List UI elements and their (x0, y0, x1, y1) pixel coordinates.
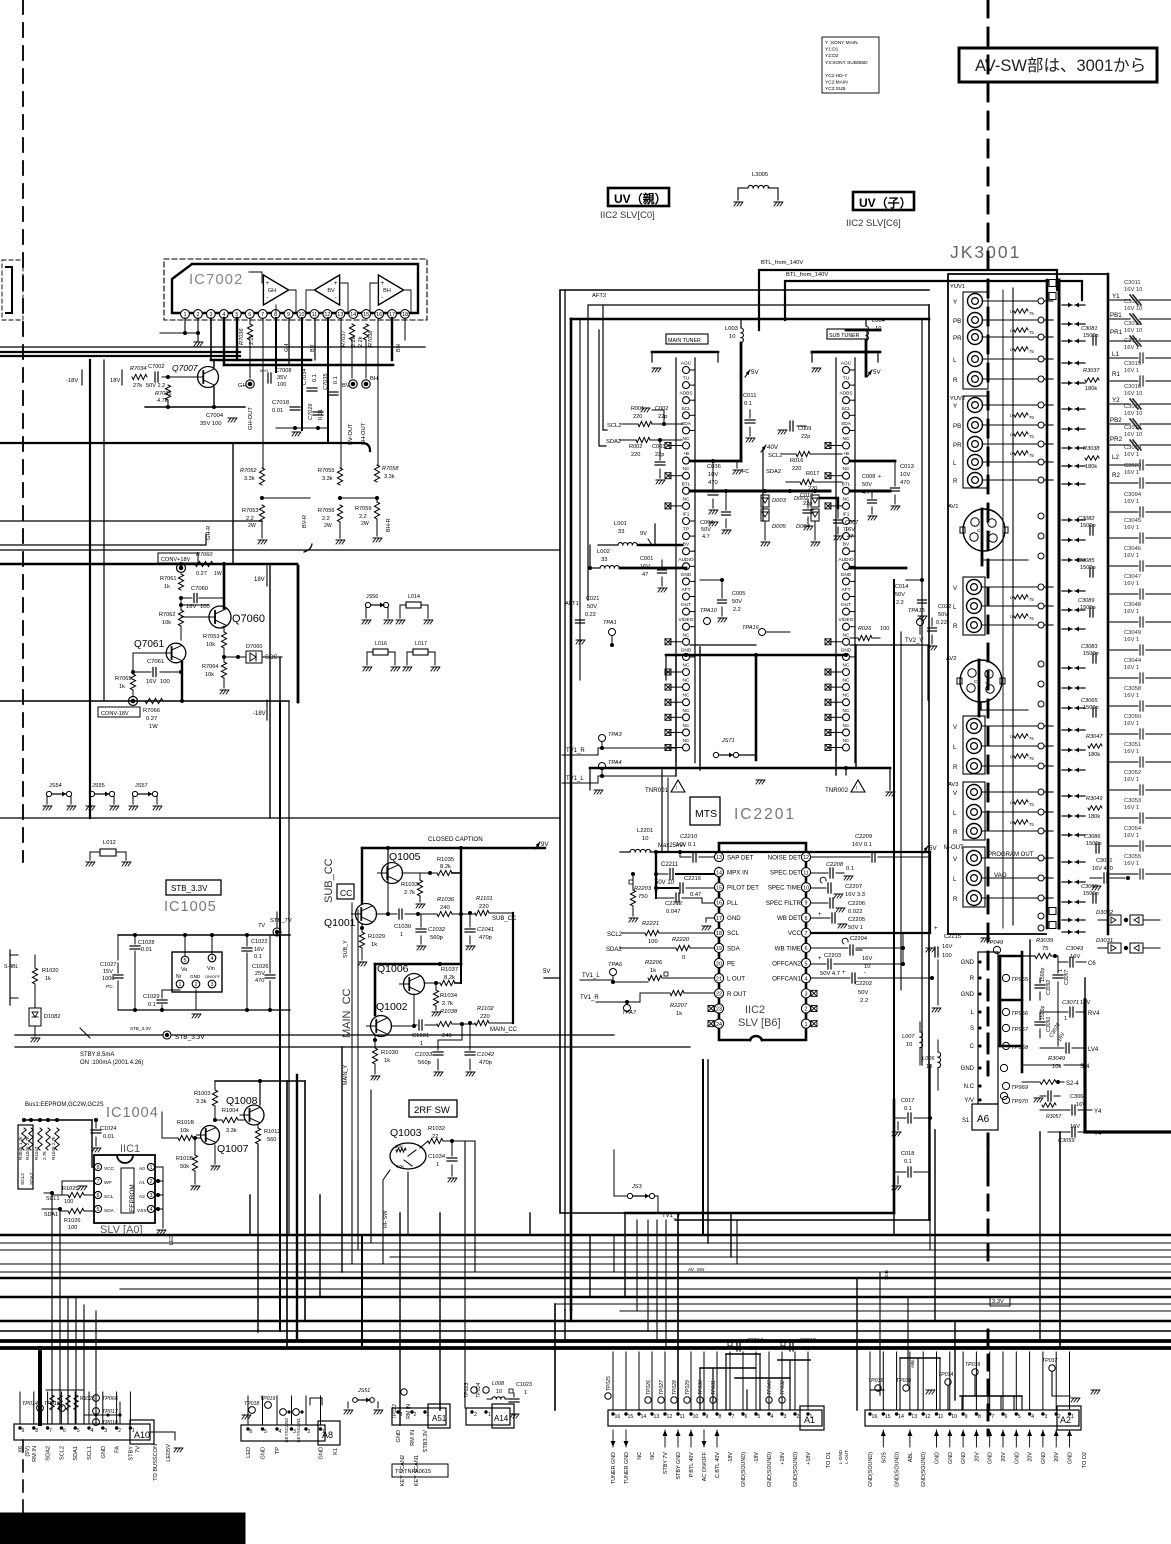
svg-text:2.2: 2.2 (860, 998, 868, 1004)
svg-text:Vin: Vin (207, 966, 215, 972)
svg-text:C3049: C3049 (1124, 630, 1141, 636)
svg-text:1: 1 (805, 1022, 808, 1028)
svg-text:R7059: R7059 (355, 506, 371, 512)
net MAIN_Y rot (343, 1065, 349, 1085)
svg-text:3.3V: 3.3V (992, 1299, 1004, 1305)
capacitor C1032 560p (416, 914, 446, 950)
svg-text:C021: C021 (586, 596, 599, 602)
svg-text:OUT: OUT (681, 602, 691, 608)
svg-text:R3047: R3047 (1086, 734, 1103, 740)
A51 body (392, 1404, 450, 1428)
svg-text:C3046: C3046 (1124, 546, 1141, 552)
capacitor C3092 1500p (1035, 967, 1052, 1000)
capacitor C3070 16V 1 (1040, 1022, 1099, 1053)
svg-text:0.1: 0.1 (846, 866, 854, 872)
svg-text:TPA15: TPA15 (908, 608, 926, 614)
capacitor C2204 16V 10 (811, 933, 905, 970)
svg-text:75: 75 (1029, 756, 1034, 761)
testpoint TPA6 (608, 962, 623, 984)
svg-text:6: 6 (805, 946, 808, 952)
testpoint conv18 (177, 564, 186, 573)
svg-text:C1030: C1030 (394, 924, 411, 930)
svg-text:YC1:HD-Y: YC1:HD-Y (825, 73, 848, 79)
capacitor C2215 16V 100 (926, 934, 961, 1012)
svg-text:5: 5 (97, 1207, 100, 1213)
svg-text:C008: C008 (862, 474, 875, 480)
net BH rot (396, 344, 402, 352)
svg-text:C7060: C7060 (191, 586, 208, 592)
capacitor C2203 50V 4.7 (811, 948, 905, 977)
A10 pins (18, 1426, 141, 1462)
svg-text:TP026: TP026 (646, 1380, 652, 1395)
svg-text:R017: R017 (806, 471, 819, 477)
svg-text:NC: NC (843, 436, 850, 442)
svg-text:Q7007: Q7007 (172, 363, 198, 373)
AV1 S-video DIN (948, 504, 1008, 565)
AV2 S-video DIN (946, 656, 1005, 716)
svg-text:NC: NC (843, 693, 850, 699)
svg-text:NC: NC (843, 632, 850, 638)
svg-text:5: 5 (184, 958, 187, 964)
svg-text:16V 10: 16V 10 (1124, 411, 1142, 417)
svg-text:4: 4 (150, 1207, 153, 1213)
svg-text:75: 75 (1042, 946, 1048, 952)
svg-text:D: D (1010, 414, 1013, 418)
bus y1047 (15, 1046, 690, 1048)
diode networks (1096, 910, 1160, 953)
svg-text:8.2k: 8.2k (440, 864, 451, 870)
YUV2 jacks (950, 396, 988, 488)
svg-text:16V 10: 16V 10 (1124, 432, 1142, 438)
svg-text:8: 8 (719, 1414, 722, 1420)
resistor R1048 (51, 1128, 59, 1160)
svg-text:IF1: IF1 (843, 512, 850, 518)
resistor R7061 1k (160, 574, 184, 590)
svg-text:(5V): (5V) (25, 1446, 31, 1457)
svg-text:D: D (1010, 329, 1013, 333)
svg-text:L-OUT: L-OUT (844, 1450, 849, 1464)
svg-text:+B: +B (683, 451, 689, 457)
svg-text:3: 3 (211, 982, 214, 988)
vert cc out (513, 913, 560, 1023)
svg-text:1: 1 (179, 982, 182, 988)
A1 to D1 (826, 1449, 849, 1468)
bus y521 (0, 520, 262, 522)
svg-text:R7065: R7065 (115, 676, 131, 682)
net GH-R rot (206, 526, 212, 540)
resistor R7056 2.2 (318, 505, 345, 544)
svg-text:13: 13 (337, 312, 343, 318)
svg-text:7V: 7V (135, 1446, 141, 1453)
svg-text:0.1: 0.1 (254, 954, 262, 960)
svg-text:4: 4 (279, 1429, 282, 1435)
svg-text:-: - (266, 295, 268, 301)
svg-text:PR: PR (953, 442, 962, 449)
svg-text:10: 10 (951, 1414, 957, 1420)
A6 box label (962, 1104, 998, 1130)
wire q7061 emitter (133, 653, 182, 701)
svg-text:75: 75 (1029, 330, 1034, 335)
svg-text:27k: 27k (133, 383, 142, 389)
left verticals (90, 360, 270, 818)
resistor R7055 3.3k (318, 468, 343, 485)
svg-text:L014: L014 (408, 594, 420, 600)
svg-text:+B: +B (843, 451, 849, 457)
svg-text:16V 1: 16V 1 (1124, 805, 1139, 811)
net TV1_L (562, 776, 676, 783)
svg-text:1: 1 (184, 312, 187, 318)
inductor L004 (866, 318, 886, 376)
wire BV sub (850, 567, 906, 570)
resistor R1019 50k (176, 1138, 200, 1190)
svg-text:L017: L017 (415, 641, 427, 647)
svg-text:RV4: RV4 (1088, 1011, 1100, 1017)
svg-text:16V: 16V (1070, 954, 1080, 960)
resistor R002 220 (606, 437, 682, 458)
svg-text:1: 1 (810, 1414, 813, 1420)
svg-text:2.2k: 2.2k (358, 336, 364, 347)
svg-text:D005: D005 (772, 524, 787, 530)
svg-text:C001: C001 (640, 556, 653, 562)
svg-text:2: 2 (1058, 1414, 1061, 1420)
svg-text:K1: K1 (333, 1448, 339, 1455)
svg-text:16V 10: 16V 10 (1124, 391, 1142, 397)
resistor R1029 1k (358, 924, 385, 966)
resistor R7058 3.3k (374, 465, 399, 482)
svg-text:AUDIO: AUDIO (838, 557, 853, 563)
svg-text:50V 10: 50V 10 (655, 880, 675, 886)
svg-text:VCC: VCC (104, 1166, 115, 1172)
transistor Q7061 (134, 639, 186, 663)
svg-text:OUT: OUT (841, 602, 851, 608)
tuner outer box (560, 290, 929, 1213)
svg-text:C1031: C1031 (412, 1033, 429, 1039)
svg-text:L: L (953, 876, 957, 883)
svg-text:Bus1:EEPROM,GC2W,GC2S: Bus1:EEPROM,GC2W,GC2S (25, 1102, 104, 1108)
rail ic1005 top (118, 933, 290, 960)
svg-text:19: 19 (716, 946, 722, 952)
capacitor C2213 0.1 (778, 1338, 816, 1360)
svg-text:L016: L016 (375, 641, 387, 647)
svg-text:R7055: R7055 (318, 468, 334, 474)
svg-text:NC: NC (683, 678, 690, 684)
wire q7007 base (162, 375, 197, 379)
svg-text:TUNER GND: TUNER GND (624, 1452, 630, 1484)
svg-text:PC: PC (106, 984, 113, 990)
svg-text:C3053: C3053 (1124, 798, 1141, 804)
diodes D003 D005 (761, 495, 787, 546)
capacitor C7060 16V 100 (179, 586, 224, 610)
svg-text:5V: 5V (751, 369, 759, 376)
svg-text:Y3:SONY SUB/B5D: Y3:SONY SUB/B5D (825, 60, 868, 66)
transistor Q1007 (197, 1126, 249, 1156)
svg-text:TP024: TP024 (476, 1383, 482, 1398)
label 18V arrow (254, 566, 267, 586)
svg-text:L1: L1 (1112, 351, 1119, 358)
svg-text:SUB_CC: SUB_CC (323, 858, 335, 903)
net SDA1 (42, 1207, 68, 1218)
svg-text:14: 14 (350, 312, 356, 318)
testpoint TPA16 (742, 625, 790, 636)
svg-text:9: 9 (287, 312, 290, 318)
svg-text:NC: NC (637, 1452, 643, 1460)
svg-text:BTL_from_140V: BTL_from_140V (786, 272, 828, 278)
IC1004 label (106, 1105, 159, 1121)
main tuner video out (690, 644, 698, 646)
svg-text:C1034: C1034 (428, 1154, 446, 1160)
IC7002 body outline (172, 264, 418, 313)
net TV2_V (902, 638, 928, 700)
svg-text:5: 5 (77, 1428, 80, 1434)
A8 pins (246, 1427, 325, 1459)
svg-text:AC ON/OFF: AC ON/OFF (702, 1451, 708, 1481)
wire +B main (690, 376, 741, 463)
svg-text:100: 100 (160, 679, 170, 685)
enclosure bottom (625, 1065, 930, 1220)
svg-text:FA: FA (115, 1446, 121, 1453)
svg-text:R2220: R2220 (672, 937, 690, 943)
svg-text:10k: 10k (205, 672, 214, 678)
svg-text:BV: BV (342, 383, 350, 389)
capacitor C005 50V 2.2 (700, 578, 745, 622)
SLV A0 label (100, 1224, 143, 1236)
svg-text:R7034: R7034 (130, 366, 146, 372)
bus y443 (0, 443, 370, 451)
svg-text:TP016: TP016 (102, 1420, 118, 1426)
svg-text:220: 220 (479, 904, 489, 910)
svg-text:C2206: C2206 (848, 901, 865, 907)
svg-text:C2208: C2208 (826, 862, 844, 868)
svg-text:22p: 22p (801, 434, 810, 440)
svg-text:9V: 9V (541, 841, 549, 848)
diode D7060 (236, 644, 282, 663)
svg-text:VSS: VSS (137, 1208, 147, 1214)
vert SUB_Y MAIN_Y (352, 903, 358, 1160)
svg-text:16V: 16V (640, 564, 650, 570)
svg-text:75: 75 (1029, 822, 1034, 827)
thick L bottom right (1085, 978, 1171, 1132)
svg-text:R7062: R7062 (159, 612, 175, 618)
svg-text:!: ! (856, 786, 857, 792)
resistor R1046 (25, 1128, 33, 1160)
svg-text:11: 11 (680, 1414, 685, 1420)
svg-text:TP: TP (683, 527, 689, 533)
label 2RF SW box (409, 1100, 457, 1117)
svg-text:C3020: C3020 (1124, 463, 1141, 469)
gnd pin17 (702, 918, 714, 930)
svg-text:C1029: C1029 (143, 994, 159, 1000)
tuner box right edge (922, 305, 929, 1220)
eeprom vcc wire (92, 1120, 94, 1167)
svg-text:TPA16: TPA16 (742, 625, 760, 631)
off-page bracket (2, 260, 23, 320)
svg-text:180k: 180k (1085, 386, 1097, 392)
svg-text:16V: 16V (146, 679, 156, 685)
svg-text:1k: 1k (650, 968, 656, 974)
svg-text:UV（子）: UV（子） (859, 195, 912, 210)
svg-text:1500p: 1500p (1083, 651, 1099, 657)
svg-text:TU: TU (683, 376, 690, 382)
svg-text:ABL: ABL (910, 1359, 916, 1368)
svg-text:13: 13 (654, 1414, 660, 1420)
svg-text:0.01: 0.01 (103, 1134, 114, 1140)
svg-text:A2: A2 (139, 1194, 145, 1200)
svg-text:C1028: C1028 (138, 940, 154, 946)
svg-text:TP967: TP967 (1011, 1027, 1029, 1033)
svg-text:GND: GND (841, 572, 852, 578)
svg-text:C3044: C3044 (1124, 658, 1142, 664)
svg-text:P.BTL 40V: P.BTL 40V (689, 1452, 695, 1478)
diodes D002 D004 (794, 495, 820, 546)
label SUB TUNER box (827, 329, 867, 339)
label CONV-18V box (98, 707, 140, 717)
svg-text:AGC: AGC (681, 361, 692, 367)
svg-text:GND: GND (101, 1446, 107, 1458)
svg-text:TO D1: TO D1 (826, 1452, 832, 1468)
svg-text:4.7: 4.7 (702, 534, 710, 540)
svg-text:0.27: 0.27 (146, 716, 157, 722)
pin drops (211, 318, 405, 468)
svg-text:C3043: C3043 (1066, 946, 1084, 952)
svg-text:9: 9 (965, 1414, 968, 1420)
JK3001 label (950, 242, 1021, 262)
svg-text:GND: GND (319, 1447, 325, 1459)
svg-text:C1033: C1033 (415, 1052, 433, 1058)
din wires (981, 551, 1028, 710)
rail CONV-18V (0, 699, 289, 703)
capacitor C011 0.1 (743, 393, 756, 442)
svg-text:C1026: C1026 (252, 964, 268, 970)
resistor R1004 3.3k (213, 1108, 244, 1134)
svg-text:47: 47 (642, 572, 648, 578)
svg-text:GND(SOUND): GND(SOUND) (895, 1452, 901, 1487)
main tuner body (652, 352, 718, 763)
vert x580 (579, 319, 581, 680)
IC7002 dashed outline (164, 259, 427, 320)
svg-text:TNR001: TNR001 (645, 787, 669, 794)
svg-text:2.7k: 2.7k (42, 1151, 47, 1160)
svg-text:BH: BH (383, 288, 391, 294)
svg-text:6: 6 (745, 1414, 748, 1420)
svg-text:MTS: MTS (695, 808, 717, 820)
svg-text:L012: L012 (103, 840, 116, 846)
svg-text:23: 23 (716, 1007, 722, 1013)
capacitor C1042 470p (465, 1021, 495, 1076)
svg-text:TP014: TP014 (22, 1401, 38, 1407)
svg-text:RM IN: RM IN (406, 1404, 412, 1419)
IC7002 pins 1-18 (181, 310, 410, 319)
svg-text:16V: 16V (862, 956, 872, 962)
svg-text:TO D2: TO D2 (1082, 1452, 1088, 1468)
svg-text:33: 33 (601, 557, 607, 563)
svg-text:Y4: Y4 (1094, 1109, 1102, 1115)
svg-text:C010: C010 (800, 493, 813, 499)
svg-text:GH-OUT: GH-OUT (248, 407, 254, 430)
svg-text:ADBS: ADBS (679, 391, 692, 397)
svg-text:R3049: R3049 (1086, 796, 1102, 802)
svg-text:WB DET: WB DET (777, 915, 801, 922)
svg-text:R2203: R2203 (634, 886, 652, 892)
capacitor C2211 50V 10 (654, 862, 714, 886)
svg-text:L: L (953, 744, 957, 751)
inductor L008 10 (487, 1381, 510, 1399)
svg-text:SCL2: SCL2 (20, 1173, 26, 1185)
A14 tp (464, 1383, 489, 1398)
svg-text:16V 1: 16V 1 (1124, 749, 1139, 755)
svg-text:22p: 22p (658, 414, 667, 420)
svg-text:TP023: TP023 (464, 1383, 470, 1398)
page border dashed right rail (987, 0, 990, 1435)
svg-text:+: + (818, 912, 822, 918)
svg-text:0.022: 0.022 (848, 909, 863, 915)
resistor R7063 10k (203, 626, 227, 648)
connector feed verticals (20, 1352, 1070, 1425)
svg-text:L OUT: L OUT (727, 976, 745, 983)
svg-text:7: 7 (261, 312, 264, 318)
svg-text:TPA4: TPA4 (608, 760, 622, 766)
jumper JS54 (43, 783, 76, 810)
svg-text:C2205: C2205 (848, 917, 865, 923)
svg-text:SCL: SCL (681, 406, 691, 412)
svg-text:C013: C013 (900, 464, 914, 470)
resistor R2203 750 (629, 872, 652, 922)
svg-text:SUB_Y: SUB_Y (343, 940, 349, 958)
svg-text:C1027: C1027 (100, 962, 116, 968)
capacitor C2214 0.1 (726, 1338, 763, 1354)
testpoint TPA7 (622, 1005, 637, 1017)
svg-text:C002: C002 (655, 406, 668, 412)
svg-text:SCL: SCL (841, 406, 851, 412)
svg-text:MHG: MHG (260, 369, 268, 373)
svg-text:TP030: TP030 (698, 1380, 704, 1395)
svg-text:R1004: R1004 (222, 1108, 238, 1114)
resistor R1036 240 (437, 848, 475, 964)
svg-text:TPA1: TPA1 (603, 620, 617, 626)
svg-text:GND: GND (1041, 1452, 1047, 1464)
svg-text:R1020: R1020 (42, 968, 58, 974)
svg-text:C007: C007 (845, 520, 858, 526)
svg-text:560p: 560p (430, 935, 443, 941)
svg-text:3: 3 (784, 1414, 787, 1420)
svg-text:R: R (953, 377, 958, 384)
bus y347 (0, 346, 425, 348)
svg-text:TPA6: TPA6 (608, 962, 623, 968)
svg-text:AV3: AV3 (948, 782, 959, 788)
svg-text:-18V: -18V (253, 711, 266, 717)
resistor R7037 2.2k (341, 324, 357, 347)
svg-text:R1036: R1036 (437, 897, 455, 903)
svg-text:R7053: R7053 (203, 634, 219, 640)
IC7002 label (189, 271, 243, 288)
capacitor C2202 50V 2.2 (811, 970, 934, 1004)
svg-text:C7004: C7004 (206, 413, 224, 419)
svg-text:R1046 2.7k: R1046 2.7k (25, 1136, 30, 1160)
black bar bottom left (0, 1513, 245, 1544)
svg-text:2W: 2W (361, 521, 369, 527)
svg-text:+: + (381, 281, 385, 287)
svg-text:2.2: 2.2 (896, 600, 904, 606)
svg-text:35V: 35V (277, 375, 287, 381)
panel caps (1078, 326, 1103, 903)
svg-text:R3039: R3039 (1036, 938, 1054, 944)
net labels right (1110, 293, 1123, 479)
svg-text:SOS: SOS (265, 655, 278, 661)
svg-text:0.1: 0.1 (744, 401, 752, 407)
svg-text:6: 6 (97, 1193, 100, 1199)
svg-text:C2202: C2202 (855, 981, 872, 987)
svg-text:1500p: 1500p (1080, 565, 1096, 571)
op-amp GH (263, 275, 288, 305)
